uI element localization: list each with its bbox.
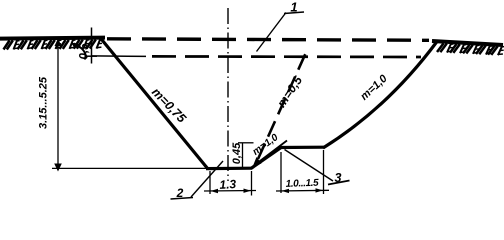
berm width arrow left — [282, 189, 290, 193]
berm width extension right — [323, 150, 325, 194]
berm slope leader arrow — [253, 157, 262, 167]
callout 2 leader — [191, 161, 223, 197]
water level min (lower dashed line) — [152, 55, 421, 58]
berm bench — [279, 146, 324, 150]
berm height tick — [238, 142, 254, 144]
ground line right — [432, 41, 503, 45]
callout 3 leader — [285, 150, 334, 182]
callout 1 leader — [257, 13, 287, 52]
svg-text:m=0,5: m=0,5 — [274, 73, 305, 110]
alternative slope m=0.5 (dashed) — [258, 53, 306, 160]
berm width dimension line — [276, 189, 329, 192]
freeboard dimension line 0.5 — [91, 28, 93, 64]
water level max (upper dashed line) — [107, 39, 429, 41]
ground hatch left — [4, 40, 103, 50]
ground line left — [0, 38, 105, 39]
svg-text:3: 3 — [335, 171, 342, 185]
svg-text:0,45: 0,45 — [231, 142, 243, 164]
freeboard tick — [86, 55, 97, 57]
slope left m=0.75 — [100, 38, 208, 170]
short slope m=1.0 — [251, 148, 281, 169]
svg-text:1: 1 — [290, 0, 297, 15]
bottom width extension right — [251, 171, 253, 196]
berm height dimension line — [242, 143, 244, 168]
callout 3 underline — [328, 181, 350, 185]
slope right m=1.0 — [323, 42, 437, 149]
centerline — [227, 8, 229, 181]
freeboard curled arrow — [74, 44, 86, 60]
svg-text:1.0...1.5: 1.0...1.5 — [285, 178, 319, 190]
berm slope leader m=1,0 — [256, 141, 287, 165]
depth dimension bottom baseline — [52, 167, 208, 169]
bottom width extension left — [209, 171, 211, 194]
ground hatch right — [437, 43, 504, 55]
bottom width arrow left — [211, 189, 219, 193]
trench bottom — [206, 167, 252, 171]
berm width extension left — [280, 152, 282, 193]
svg-text:1.3: 1.3 — [219, 177, 237, 192]
bottom width arrow right — [244, 189, 252, 193]
depth dimension line 3.15...5.25 — [57, 40, 59, 170]
depth dimension arrow bottom — [54, 164, 62, 172]
bottom width dimension line — [204, 190, 256, 193]
berm width arrow right — [316, 188, 324, 192]
svg-text:m=1,0: m=1,0 — [251, 132, 281, 158]
depth dimension arrow top — [55, 39, 62, 47]
callout 1 underline — [284, 12, 304, 14]
svg-text:3.15...5.25: 3.15...5.25 — [38, 76, 50, 129]
svg-text:0,5: 0,5 — [79, 43, 91, 60]
water level min (lower dashed line) thin lead-in — [92, 55, 146, 58]
svg-text:2: 2 — [176, 186, 184, 200]
callout 2 underline — [171, 198, 194, 200]
